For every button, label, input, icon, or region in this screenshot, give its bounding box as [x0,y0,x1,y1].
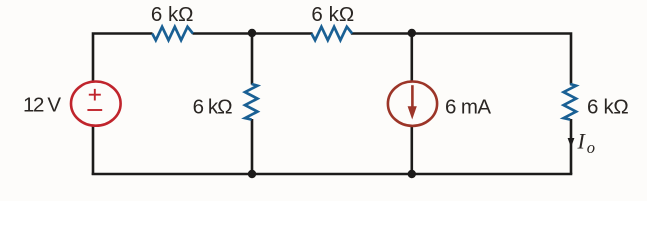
current source I1: arrow shaft [411,85,414,107]
resistor R3: middle vertical 6 kOhm zigzag [245,84,258,120]
svg-text:12 V: 12 V [23,94,61,117]
wire: top rail, left corner to R1 [93,34,153,83]
wire: left branch below voltage source [92,125,95,175]
wire: right branch, R4 down to bottom rail [570,119,573,174]
voltage source V1: minus sign [87,109,102,111]
wire: bottom rail [92,173,573,176]
svg-text:6 kΩ: 6 kΩ [151,3,194,26]
node A: junction dot top middle [248,29,256,37]
voltage source V1: plus sign [89,89,101,101]
resistor R2: top-right 6 kOhm zigzag [312,27,353,40]
wire: current source branch, node B down to circle [410,34,413,82]
svg-text:6 kΩ: 6 kΩ [311,3,354,26]
node C: junction dot bottom middle [248,170,256,178]
svg-text:6 kΩ: 6 kΩ [193,96,233,119]
node D: junction dot bottom right of centre [408,170,416,178]
voltage source V1: ellipse [71,82,121,126]
svg-text:6 kΩ: 6 kΩ [587,96,629,119]
resistor R1: top-left 6 kOhm zigzag [152,27,193,40]
current source I1: arrow head [408,106,417,119]
svg-text:o: o [587,138,595,157]
wire: middle branch, R3 down to bottom rail [251,119,254,174]
wire: top rail from R2 to top-right corner, down to R4 [351,34,571,85]
resistor R4: right vertical 6 kOhm zigzag [564,84,577,120]
current source I1: ellipse [388,82,437,126]
current arrow Io head on right branch wire [568,138,575,147]
wire: top rail between R1 and R2 (through node A) [193,32,313,35]
wire: current source branch, circle to bottom rail [410,126,413,174]
wire: middle branch, node A down to R3 [251,34,254,85]
svg-text:6 mA: 6 mA [445,95,491,118]
node B: junction dot top right of centre [408,29,416,37]
